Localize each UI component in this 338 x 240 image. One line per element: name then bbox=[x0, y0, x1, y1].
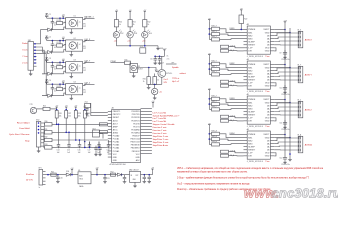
svg-text:R1: R1 bbox=[57, 20, 59, 22]
svg-text:AVCC: AVCC bbox=[113, 128, 119, 131]
capacitor C11 driver Z bbox=[284, 120, 286, 123]
svg-text:VD3: VD3 bbox=[134, 33, 137, 35]
wire VMOT driver X bbox=[274, 29, 285, 31]
svg-text:Direction Y axis: Direction Y axis bbox=[153, 129, 167, 132]
connector M_A motor body bbox=[298, 136, 303, 153]
ground connector XS2 bbox=[38, 147, 40, 150]
ground opto block 4 bbox=[70, 95, 72, 97]
svg-text:U1: U1 bbox=[74, 16, 76, 18]
svg-text:Stepper Control / Enable: Stepper Control / Enable bbox=[153, 123, 176, 126]
svg-text:Spindle: Spindle bbox=[172, 67, 180, 69]
svg-text:Нр.1 пУ: Нр.1 пУ bbox=[172, 81, 180, 83]
driver Z right pin labels bbox=[263, 99, 270, 122]
junction dots opto rail 1 bbox=[52, 17, 54, 19]
+5V symbol dc-dc out bbox=[96, 168, 100, 172]
ground capacitor driver X bbox=[283, 56, 287, 59]
capacitor C15 button filter bbox=[67, 142, 70, 149]
svg-text:1uF: 1uF bbox=[57, 152, 60, 154]
svg-text:R4: R4 bbox=[57, 86, 59, 88]
ground capacitor driver Y bbox=[283, 91, 287, 94]
svg-text:OUT: OUT bbox=[135, 175, 138, 177]
capacitor C12 driver A bbox=[284, 155, 286, 158]
svg-text:AXIS Y: AXIS Y bbox=[305, 74, 313, 77]
svg-text:VMOT: VMOT bbox=[263, 99, 270, 101]
capacitor C5 lower lead bbox=[51, 25, 53, 30]
svg-text:10k: 10k bbox=[68, 115, 71, 117]
junction dots driver Z rail bbox=[209, 98, 211, 100]
svg-text:R22: R22 bbox=[244, 19, 247, 21]
driver A right pins bbox=[270, 135, 274, 156]
svg-text:1k: 1k bbox=[148, 24, 150, 26]
mcu right net labels bbox=[153, 112, 181, 146]
svg-text:VD6: VD6 bbox=[66, 171, 69, 173]
wire enable driver X bbox=[237, 28, 244, 30]
wire VDD driver X bbox=[274, 48, 276, 51]
svg-text:1.5P: 1.5P bbox=[248, 118, 253, 120]
svg-text:0.1: 0.1 bbox=[54, 47, 56, 49]
transistor VT3 reset bbox=[30, 107, 36, 113]
resistor 1.5P_Z bbox=[221, 115, 229, 118]
svg-text:PWM/E: PWM/E bbox=[248, 134, 256, 136]
wire step dir driver X bbox=[229, 47, 244, 48]
svg-text:+5v: +5v bbox=[159, 92, 162, 94]
svg-text:GND: GND bbox=[265, 102, 270, 104]
svg-text:C6: C6 bbox=[54, 45, 56, 47]
connector XS1 limit inputs body bbox=[28, 42, 34, 71]
ground C23 bbox=[143, 180, 147, 183]
svg-text:Step/Pulse Y axis: Step/Pulse Y axis bbox=[153, 138, 169, 141]
svg-text:PC2/A2: PC2/A2 bbox=[113, 141, 120, 144]
svg-text:X Lim: X Lim bbox=[22, 50, 28, 52]
+12V power rail vertical bbox=[284, 24, 286, 155]
svg-text:Direction X axis: Direction X axis bbox=[153, 132, 167, 135]
svg-text:AXIS Z: AXIS Z bbox=[305, 109, 313, 112]
ground C22 bbox=[123, 180, 127, 183]
wire step dir driver A bbox=[229, 152, 244, 153]
svg-text:M_Z: M_Z bbox=[298, 99, 301, 101]
resistor pull-up R26 bbox=[55, 110, 58, 118]
svg-text:Stop: Stop bbox=[25, 140, 30, 143]
svg-text:PD0/RXD: PD0/RXD bbox=[131, 111, 140, 113]
capacitor C10 driver Y bbox=[284, 85, 286, 88]
transistor VT2 MOSFET bbox=[158, 70, 166, 78]
opto-coupler U5 EL817 bbox=[130, 64, 138, 73]
svg-text:AREF: AREF bbox=[113, 125, 119, 128]
wire enable driver A bbox=[237, 133, 244, 135]
svg-text:U2: U2 bbox=[74, 38, 76, 40]
wire crystal to mcu bbox=[90, 103, 92, 116]
svg-text:R29: R29 bbox=[87, 113, 90, 115]
mcu left pin labels bbox=[113, 111, 121, 162]
svg-text:A2: A2 bbox=[112, 107, 114, 110]
svg-text:4_WIRE_MODULE: 4_WIRE_MODULE bbox=[247, 91, 264, 93]
svg-text:C20: C20 bbox=[60, 178, 63, 180]
opto-coupler U1 6N137 body bbox=[66, 18, 83, 29]
svg-text:SLEEP: SLEEP bbox=[248, 111, 255, 113]
dc-dc module U6 body bbox=[78, 172, 91, 184]
svg-text:t/k: t/k bbox=[167, 55, 169, 58]
svg-text:1uF: 1uF bbox=[88, 152, 91, 154]
svg-text:Step/Pulse Z axis: Step/Pulse Z axis bbox=[153, 135, 169, 138]
driver X right pins bbox=[270, 30, 274, 51]
svg-text:VMOT: VMOT bbox=[263, 134, 270, 136]
svg-text:VCC: VCC bbox=[113, 154, 118, 156]
resistor R1 opto block 1 bbox=[59, 18, 61, 21]
ground capacitor driver A bbox=[283, 161, 287, 164]
svg-text:ADC7: ADC7 bbox=[113, 122, 118, 125]
svg-text:PB1/OC1A: PB1/OC1A bbox=[130, 138, 140, 141]
wire opto 1 output bbox=[83, 18, 87, 19]
resistor R32 button row 3 bbox=[45, 138, 53, 141]
svg-text:PB0/ICP: PB0/ICP bbox=[132, 136, 140, 138]
ground R16 bbox=[148, 84, 150, 86]
wire enable driver Z bbox=[237, 98, 244, 100]
resistor R30 button row 1 bbox=[45, 123, 53, 126]
svg-text:R3: R3 bbox=[57, 64, 59, 66]
junction dots spindle top bbox=[154, 56, 156, 58]
resistor MS3_X bbox=[212, 38, 220, 41]
wire MS resistors to driver X bbox=[220, 29, 244, 33]
capacitor C7 lower lead bbox=[51, 69, 53, 74]
svg-text:C12: C12 bbox=[279, 158, 282, 160]
resistor MS3_Y bbox=[212, 73, 220, 76]
svg-text:PD6/AIN0: PD6/AIN0 bbox=[131, 128, 139, 131]
svg-text:U6: U6 bbox=[78, 170, 80, 172]
junction dots XS1 bbox=[34, 43, 36, 45]
svg-text:PC3/A3: PC3/A3 bbox=[113, 144, 120, 147]
resistor pull-up R28 bbox=[74, 110, 77, 118]
capacitor crystal C9 bbox=[85, 108, 88, 112]
svg-text:10k: 10k bbox=[78, 115, 81, 117]
wire VMOT driver Y bbox=[274, 64, 285, 66]
resistor R17 bbox=[153, 77, 157, 85]
junction dots opto rail 4 bbox=[52, 83, 54, 85]
svg-text:XT1: XT1 bbox=[140, 46, 143, 48]
input wire and diode VD2 opto block 2 bbox=[42, 51, 64, 53]
input wire and diode VD1 opto block 1 bbox=[42, 29, 64, 31]
svg-text:1uF: 1uF bbox=[107, 152, 110, 154]
wire VDD driver Y bbox=[274, 83, 276, 86]
svg-text:PB7/XT2: PB7/XT2 bbox=[113, 114, 121, 116]
svg-text:1uF: 1uF bbox=[78, 152, 81, 154]
svg-text:VT3: VT3 bbox=[30, 104, 33, 106]
svg-text:C16: C16 bbox=[78, 150, 81, 152]
junction dots driver A rail bbox=[209, 133, 211, 135]
connector XT1 bbox=[140, 48, 146, 53]
connector M_X motor body bbox=[298, 31, 303, 48]
driver A left pins bbox=[244, 135, 248, 156]
+5V symbol pull-up 1 bbox=[55, 106, 59, 110]
+5V symbol power stage bbox=[71, 168, 75, 172]
+5V symbol pull-up 4 bbox=[83, 106, 87, 110]
svg-text:FU1: FU1 bbox=[51, 171, 54, 173]
svg-text:C7: C7 bbox=[54, 67, 56, 69]
svg-text:PB3/MOSI: PB3/MOSI bbox=[131, 145, 140, 147]
svg-text:DD2: DD2 bbox=[93, 128, 96, 130]
svg-text:GND: GND bbox=[265, 121, 270, 123]
junction dots LED rail bbox=[129, 45, 131, 47]
svg-text:24 V IN: 24 V IN bbox=[26, 180, 33, 182]
svg-text:SPNDL: SPNDL bbox=[166, 73, 172, 75]
capacitor C4 0.1uF bbox=[45, 80, 48, 85]
+5V symbol driver X pull-ups bbox=[208, 18, 212, 22]
svg-text:GND: GND bbox=[265, 51, 270, 53]
ground opto block 2 bbox=[70, 51, 72, 53]
svg-text:DIR: DIR bbox=[248, 121, 252, 123]
svg-text:C10: C10 bbox=[279, 88, 282, 90]
svg-text:R16: R16 bbox=[143, 79, 146, 81]
svg-text:VD4: VD4 bbox=[149, 33, 152, 35]
mcu right pins bbox=[141, 109, 152, 154]
+5V symbol mcu bbox=[152, 101, 156, 105]
opto-coupler U3 6N137 body bbox=[66, 62, 83, 73]
svg-text:ZQ1: ZQ1 bbox=[85, 102, 88, 104]
junction dots opto rail 3 bbox=[52, 62, 54, 64]
wire source network spindle bbox=[161, 77, 163, 84]
+5V symbol driver Z pull-ups bbox=[208, 88, 212, 92]
+5V symbol regulator out bbox=[151, 168, 155, 172]
ground C20 bbox=[56, 180, 60, 183]
svg-text:ADC: ADC bbox=[136, 159, 141, 162]
driver Y right pins bbox=[270, 65, 274, 86]
wire Probe to opto 1 bbox=[37, 30, 43, 44]
svg-text:Cycle Start / Resume: Cycle Start / Resume bbox=[9, 133, 30, 136]
svg-text:C17: C17 bbox=[88, 150, 91, 152]
wire MS resistors to driver A bbox=[220, 134, 244, 138]
wire dc-dc output bbox=[91, 174, 130, 176]
LED VD2 bbox=[115, 27, 117, 32]
svg-text:PWM/E: PWM/E bbox=[248, 99, 256, 101]
+5V symbol LED column 3 bbox=[143, 10, 147, 14]
wire pull-up 1 to row bbox=[56, 118, 58, 124]
connector XP1 power in body bbox=[39, 170, 43, 186]
svg-text:4_WIRE_MODULE: 4_WIRE_MODULE bbox=[247, 126, 264, 128]
driver Z right pins bbox=[270, 100, 274, 121]
wire caps to rows bbox=[58, 124, 60, 141]
svg-text:R27: R27 bbox=[68, 113, 71, 115]
svg-text:C11: C11 bbox=[279, 123, 282, 125]
wire MS resistors to driver Y bbox=[220, 64, 244, 68]
wire gate from opto bbox=[138, 68, 158, 72]
svg-text:VDD: VDD bbox=[265, 118, 270, 120]
svg-text:C6: C6 bbox=[150, 59, 152, 61]
capacitor C9 driver X bbox=[284, 50, 286, 53]
svg-text:220uFx16v: 220uFx16v bbox=[281, 59, 290, 61]
driver X left pin labels bbox=[248, 29, 256, 52]
+5V symbol driver A pull-ups bbox=[208, 123, 212, 127]
svg-text:R25: R25 bbox=[43, 106, 46, 108]
svg-text:PB2/OC1B: PB2/OC1B bbox=[130, 142, 140, 144]
svg-text:A6: A6 bbox=[247, 128, 249, 131]
resistor DK_X bbox=[221, 49, 229, 52]
svg-text:R11: R11 bbox=[133, 22, 136, 24]
wire drain MOSFET bbox=[161, 56, 163, 69]
svg-text:PD2/INT0: PD2/INT0 bbox=[131, 117, 139, 119]
svg-text:AGND: AGND bbox=[113, 131, 119, 134]
svg-text:Lim? Y axis Mk: Lim? Y axis Mk bbox=[153, 118, 167, 120]
resistor MS3_Z bbox=[212, 108, 220, 111]
junction dots driver X rail bbox=[209, 28, 211, 30]
svg-text:VMOT: VMOT bbox=[263, 64, 270, 66]
junction dots dc-dc out bbox=[96, 174, 98, 176]
svg-text:Vcc3 – перед включением провер: Vcc3 – перед включением проверить напряж… bbox=[177, 183, 251, 185]
svg-text:R32: R32 bbox=[45, 137, 48, 139]
wire LED ground rail bbox=[116, 45, 158, 47]
svg-text:RESET: RESET bbox=[248, 149, 256, 151]
svg-text:DIR: DIR bbox=[248, 86, 252, 88]
svg-text:Z Lim: Z Lim bbox=[22, 63, 27, 65]
junction dot pull-up 1 bbox=[56, 109, 58, 111]
wire power top rail bbox=[46, 174, 79, 176]
stepper driver module A3 body bbox=[247, 26, 270, 54]
wire VDD driver A bbox=[274, 153, 276, 156]
resistor MS2_Z bbox=[212, 103, 220, 106]
junction dot row wire bbox=[84, 141, 86, 143]
svg-text:PC4/A4: PC4/A4 bbox=[113, 147, 120, 150]
capacitor C8 opto block 4 bbox=[51, 84, 54, 90]
capacitor C3 0.1uF bbox=[45, 58, 48, 63]
resistor R20 in row 1 bbox=[99, 123, 107, 126]
svg-text:VD5.1 – стабилизатор напряжени: VD5.1 – стабилизатор напряжения, или общ… bbox=[177, 167, 324, 170]
ground regulator bbox=[134, 182, 136, 184]
wire LED 1 to ground rail bbox=[115, 38, 117, 46]
+5V symbol LED column 1 bbox=[115, 10, 119, 14]
svg-text:GND: GND bbox=[113, 157, 118, 159]
resistor 1.5P_X bbox=[221, 45, 229, 48]
svg-text:PD4/T0: PD4/T0 bbox=[133, 123, 139, 125]
capacitor C1 0.1uF bbox=[45, 14, 48, 19]
svg-text:In: In bbox=[39, 187, 40, 189]
svg-text:DA1 LM1117: DA1 LM1117 bbox=[129, 168, 139, 171]
fuse FU2 bbox=[111, 173, 116, 176]
svg-text:FU2: FU2 bbox=[111, 171, 114, 173]
svg-text:2-Stop – крайняя важная функци: 2-Stop – крайняя важная функция безопасн… bbox=[177, 176, 310, 179]
ground opto U5 bbox=[133, 73, 135, 75]
svg-text:SLEEP: SLEEP bbox=[248, 146, 255, 148]
diode VD6 bbox=[66, 173, 70, 176]
+12V symbol rail bbox=[283, 21, 288, 25]
wire opto 3 output bbox=[83, 62, 87, 63]
capacitor C21 bbox=[103, 175, 106, 181]
svg-text:C5: C5 bbox=[54, 23, 56, 25]
capacitor C19 button filter bbox=[107, 142, 110, 149]
svg-text:PB5/SCK: PB5/SCK bbox=[132, 151, 141, 153]
wire X Lim to opto 2 bbox=[37, 47, 43, 52]
svg-text:C19: C19 bbox=[107, 150, 110, 152]
resistor R16 bbox=[148, 68, 150, 77]
driver Z left pins bbox=[244, 100, 248, 121]
resistor R21 in row 2 bbox=[99, 130, 107, 133]
wire GND driver Z bbox=[274, 102, 290, 104]
svg-text:cnc3018.ru: cnc3018.ru bbox=[272, 186, 338, 200]
wire opto 2 output bbox=[83, 40, 87, 41]
svg-text:GND: GND bbox=[265, 67, 270, 69]
junction dot pull-up 3 bbox=[75, 109, 77, 111]
svg-text:C9: C9 bbox=[279, 53, 281, 55]
resistor DK_Z bbox=[221, 119, 229, 122]
LED VD4 bbox=[144, 27, 146, 32]
resistor DK_A bbox=[221, 154, 229, 157]
svg-text:GND: GND bbox=[265, 137, 270, 139]
driver Y left pins bbox=[244, 65, 248, 86]
svg-text:U4: U4 bbox=[74, 82, 76, 84]
component DD2 body bbox=[93, 130, 100, 137]
wire step dir driver Z bbox=[229, 117, 244, 118]
ground opto block 3 bbox=[70, 73, 72, 75]
wire VDD driver Z bbox=[274, 118, 276, 121]
mcu right pin labels bbox=[130, 111, 140, 162]
svg-text:MS2_Z: MS2_Z bbox=[212, 101, 217, 103]
capacitor C22 bbox=[123, 175, 126, 181]
wire GND driver A bbox=[274, 137, 290, 139]
junction dot pull-up 2 bbox=[65, 109, 67, 111]
svg-text:1k: 1k bbox=[133, 24, 135, 26]
driver Y left pin labels bbox=[248, 64, 256, 87]
svg-text:T low: T low bbox=[265, 126, 270, 128]
svg-text:GND: GND bbox=[135, 157, 140, 159]
capacitor C16 button filter bbox=[78, 142, 81, 149]
junction dot source bbox=[154, 84, 156, 86]
mcu A2 ATMEGA328P body bbox=[112, 110, 141, 163]
svg-text:10k: 10k bbox=[59, 115, 62, 117]
+5V symbol enable pullup bbox=[240, 9, 244, 13]
wire pull-up 4 to row bbox=[84, 118, 86, 147]
svg-text:Direction Z axis: Direction Z axis bbox=[153, 126, 167, 129]
svg-text:1.5P: 1.5P bbox=[248, 48, 253, 50]
svg-text:PB4/MISO: PB4/MISO bbox=[131, 148, 140, 150]
svg-text:4_WIRE_MODULE: 4_WIRE_MODULE bbox=[247, 56, 264, 58]
+5V symbol pull-up 3 bbox=[74, 106, 78, 110]
svg-text:VD2: VD2 bbox=[120, 33, 123, 35]
wire button row 3 bbox=[52, 139, 108, 141]
svg-text:R31: R31 bbox=[45, 129, 48, 131]
svg-text:A5: A5 bbox=[247, 93, 249, 96]
junction dots regulator out bbox=[144, 174, 146, 176]
svg-text:137: 137 bbox=[83, 70, 86, 72]
svg-text:137: 137 bbox=[83, 48, 86, 50]
svg-text:GND: GND bbox=[265, 32, 270, 34]
svg-text:R12: R12 bbox=[148, 22, 151, 24]
ground opto block 1 bbox=[70, 29, 72, 31]
svg-text:AXIS A: AXIS A bbox=[305, 144, 312, 147]
svg-text:SLEEP: SLEEP bbox=[248, 76, 255, 78]
wire button row 4 bbox=[52, 146, 108, 148]
ground mcu caps bbox=[95, 151, 97, 153]
svg-text:IN: IN bbox=[131, 175, 133, 177]
svg-text:C2: C2 bbox=[49, 36, 51, 38]
svg-text:C8: C8 bbox=[54, 89, 56, 91]
svg-text:DIR: DIR bbox=[248, 51, 252, 53]
resistor MS1_Y bbox=[212, 62, 220, 65]
svg-text:R30: R30 bbox=[45, 121, 48, 123]
resistor R11 LED column 2 bbox=[129, 14, 131, 20]
connector M_Y motor body bbox=[298, 66, 303, 83]
svg-text:VCC: VCC bbox=[136, 154, 141, 156]
svg-text:Feed Hold: Feed Hold bbox=[19, 128, 30, 130]
svg-text:PD1/TXD: PD1/TXD bbox=[132, 114, 141, 116]
svg-text:220uFx16v: 220uFx16v bbox=[281, 94, 290, 96]
resistor R4 opto block 4 bbox=[59, 84, 61, 87]
svg-text:MS3_Z: MS3_Z bbox=[212, 106, 217, 108]
svg-text:GND: GND bbox=[265, 156, 270, 158]
wire coil outputs driver A bbox=[274, 138, 298, 141]
svg-text:RESET: RESET bbox=[248, 79, 256, 81]
wire regulator output bbox=[141, 174, 153, 176]
wire VMOT driver Z bbox=[274, 99, 285, 101]
svg-text:0.1: 0.1 bbox=[54, 25, 56, 27]
input wire and diode VD4 opto block 4 bbox=[42, 95, 64, 97]
wire step dir driver Y bbox=[229, 82, 244, 83]
